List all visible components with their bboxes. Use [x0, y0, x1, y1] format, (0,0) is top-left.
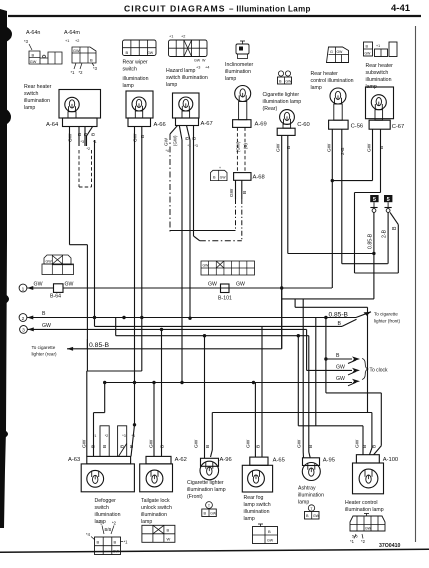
inclinometer label — [225, 62, 254, 82]
wire bus drop to A-63 pin4 — [131, 383, 136, 457]
rear heater subswitch label — [366, 63, 394, 90]
svg-text:unlock switch: unlock switch — [141, 505, 172, 511]
svg-text:GW: GW — [68, 133, 74, 142]
svg-text:B: B — [392, 226, 398, 230]
wire A-64 GW jog — [70, 245, 88, 371]
wire drops to A-62 — [154, 329, 162, 456]
svg-text:illumination: illumination — [298, 493, 324, 499]
lamp C-67 — [366, 87, 405, 130]
connector A-68 mate view — [211, 166, 228, 181]
svg-text:GW: GW — [164, 137, 169, 146]
svg-text:2-B: 2-B — [382, 229, 388, 238]
svg-text:GW: GW — [236, 282, 245, 288]
lamp A-62 — [140, 456, 187, 491]
svg-text:GW: GW — [220, 176, 227, 180]
svg-text:GW: GW — [355, 439, 361, 448]
svg-text:+1: +1 — [376, 44, 380, 48]
svg-text:illumination: illumination — [225, 69, 251, 75]
page header title — [124, 4, 311, 14]
svg-text:*4: *4 — [86, 532, 91, 537]
connector B-101 pin grid — [201, 261, 255, 275]
lamp C-56 wires — [326, 129, 346, 288]
svg-text:(Rear): (Rear) — [263, 106, 278, 112]
lamp C-56 — [329, 88, 364, 130]
svg-text:GW: GW — [267, 539, 274, 543]
svg-text:GW: GW — [203, 264, 210, 268]
svg-text:A-100: A-100 — [383, 457, 398, 463]
wire dashed link under A-64 — [79, 140, 95, 326]
svg-text:B: B — [306, 514, 309, 518]
cigarette lighter front label — [187, 480, 226, 500]
rear heater subswitch connector grid — [364, 42, 398, 57]
lamp A-65 wires — [254, 383, 256, 458]
lamp A-63 pin labels — [82, 426, 135, 457]
svg-text:A-69: A-69 — [255, 122, 267, 128]
connector B-101 on wire — [208, 282, 245, 302]
svg-text:lamp switch: lamp switch — [244, 502, 271, 508]
svg-text:2: 2 — [22, 316, 25, 322]
svg-text:GW: GW — [46, 260, 53, 264]
lamp A-69 dashed wires — [236, 127, 249, 172]
lamp A-65 — [242, 457, 285, 492]
wire C-60 B splice link — [288, 252, 376, 255]
wire C-56 2-B route — [342, 263, 388, 265]
svg-text:control illumination: control illumination — [311, 78, 354, 84]
A-96 connector view — [202, 502, 217, 517]
svg-text:lamp: lamp — [225, 76, 236, 82]
svg-text:+2: +2 — [181, 35, 185, 39]
svg-text:2-B: 2-B — [340, 148, 346, 155]
connector view A-64m — [64, 30, 98, 75]
svg-text:*3: *3 — [122, 434, 125, 438]
wire clock GW rail — [307, 364, 360, 375]
svg-text:B: B — [140, 135, 146, 138]
left binding edge — [0, 9, 12, 528]
wire 0.85-B from splice — [368, 212, 374, 299]
svg-text:Defogger: Defogger — [95, 498, 117, 504]
svg-text:Tailgate lock: Tailgate lock — [141, 498, 170, 504]
svg-text:Rear fog: Rear fog — [244, 495, 264, 501]
A-62 pin diagram — [142, 525, 175, 542]
svg-text:C-67: C-67 — [392, 124, 405, 130]
svg-text:illumination: illumination — [366, 77, 392, 83]
svg-text:B: B — [126, 50, 129, 55]
svg-text:B: B — [129, 445, 135, 448]
svg-text:Ashtray: Ashtray — [298, 486, 316, 492]
svg-text:A-68: A-68 — [253, 175, 265, 181]
svg-text:B: B — [77, 133, 83, 136]
svg-text:GW: GW — [73, 49, 80, 53]
ashtray label — [298, 486, 324, 506]
svg-text:*1: *1 — [71, 70, 76, 75]
lamp C-60 wires — [276, 135, 293, 348]
svg-text:illumination lamp: illumination lamp — [187, 487, 226, 493]
svg-text:lamp: lamp — [298, 500, 309, 506]
svg-text:A-95: A-95 — [323, 458, 335, 464]
svg-text:illumination lamp: illumination lamp — [263, 99, 302, 105]
svg-text:illumination: illumination — [141, 512, 167, 518]
svg-text:B: B — [213, 176, 216, 180]
svg-text:Heater control: Heater control — [345, 500, 378, 506]
svg-text:GW: GW — [147, 51, 154, 55]
wire GW bus horizontal — [103, 381, 352, 384]
lamp A-64 pin wires — [68, 127, 97, 245]
svg-text:Rear heater: Rear heater — [24, 84, 52, 90]
svg-text:switch illumination: switch illumination — [166, 75, 208, 81]
to clock label — [370, 368, 389, 374]
A-65 pin diagram — [253, 524, 278, 544]
svg-text:B: B — [308, 445, 314, 448]
svg-text:Rear heater: Rear heater — [311, 71, 339, 77]
svg-text:GW: GW — [208, 282, 217, 288]
svg-text:GW: GW — [133, 133, 139, 142]
right page edge — [415, 26, 417, 542]
svg-text:GW: GW — [313, 514, 320, 518]
page number 4-41 — [391, 3, 411, 14]
svg-text:B: B — [204, 512, 207, 516]
svg-text:W: W — [167, 537, 171, 542]
node 3 circled — [20, 326, 34, 334]
lamp A-65 pin labels — [246, 439, 262, 448]
svg-text:subswitch: subswitch — [366, 70, 389, 76]
lamp A-69 — [233, 86, 267, 128]
svg-text:0.85-B: 0.85-B — [368, 233, 374, 249]
cigarette lighter rear connector view — [278, 71, 293, 84]
svg-text:B: B — [242, 191, 248, 194]
svg-text:CIRCUIT DIAGRAMS: CIRCUIT DIAGRAMS — [124, 4, 226, 14]
svg-text:Rear wiper: Rear wiper — [123, 60, 148, 66]
svg-text:B: B — [90, 445, 96, 448]
A-100 pin diagram — [350, 514, 385, 545]
svg-text:lamp: lamp — [141, 519, 152, 525]
svg-text:lamp: lamp — [24, 105, 35, 111]
inclinometer connector view — [236, 41, 249, 59]
hazard lamp switch connector grid — [169, 35, 210, 70]
svg-text:37O0410: 37O0410 — [379, 543, 400, 549]
node 2 circled — [19, 314, 33, 322]
svg-text:*3: *3 — [99, 521, 104, 526]
svg-text:B: B — [205, 445, 211, 448]
svg-text:*3: *3 — [195, 144, 198, 148]
svg-text:B: B — [114, 540, 117, 545]
svg-text:1: 1 — [22, 286, 25, 292]
to cigarette lighter front label — [374, 312, 401, 324]
svg-text:+1: +1 — [65, 39, 69, 43]
svg-text:A-96: A-96 — [220, 457, 232, 463]
svg-text:GW: GW — [286, 80, 293, 84]
svg-text:B: B — [366, 45, 369, 49]
svg-text:GW: GW — [194, 439, 200, 448]
splice 5 left — [370, 195, 378, 212]
dash-dot link A-68 B — [200, 240, 242, 242]
svg-text:3: 3 — [22, 328, 25, 334]
svg-text:GW: GW — [229, 188, 235, 197]
svg-text:*1: *1 — [188, 144, 191, 148]
svg-text:*4: *4 — [166, 149, 169, 153]
svg-text:*3: *3 — [93, 66, 98, 71]
svg-text:To cigarette: To cigarette — [32, 345, 56, 350]
svg-text:GW: GW — [149, 439, 155, 448]
lamp A-95 pin labels — [297, 439, 315, 448]
svg-text:B: B — [160, 445, 166, 448]
A-63 pin diagram — [86, 521, 128, 555]
svg-text:*1: *1 — [124, 540, 129, 545]
svg-text:Hazard lamp: Hazard lamp — [166, 68, 196, 74]
wire clock GW branch arrow — [336, 359, 368, 386]
hazard lamp switch label — [166, 68, 208, 88]
svg-text:illumination: illumination — [123, 76, 149, 82]
svg-text:B-64: B-64 — [50, 294, 61, 300]
wire clock B rail — [324, 353, 360, 363]
lamp A-62 pin labels — [149, 439, 166, 448]
svg-text:Cigarette lighter: Cigarette lighter — [187, 480, 224, 486]
svg-text:GW: GW — [30, 60, 37, 64]
svg-text:To cigarette: To cigarette — [374, 312, 398, 317]
lamp C-67 wires — [367, 129, 385, 192]
svg-text:*4: *4 — [132, 434, 135, 438]
svg-text:4-41: 4-41 — [391, 3, 411, 14]
svg-text:B: B — [167, 528, 170, 533]
svg-text:B: B — [279, 80, 282, 84]
cigarette front 0.85-B lead — [95, 311, 372, 327]
svg-text:GW: GW — [194, 59, 201, 63]
illumination feed wire GW via B-64 — [27, 282, 332, 300]
rear wiper switch label — [123, 60, 149, 90]
svg-text:GW: GW — [336, 364, 345, 370]
svg-text:T: T — [208, 504, 211, 508]
connector view A-64n — [24, 30, 62, 64]
svg-text:*1: *1 — [93, 434, 96, 438]
svg-text:C-60: C-60 — [297, 122, 310, 128]
svg-text:B: B — [97, 540, 100, 545]
svg-text:(B): (B) — [243, 143, 248, 149]
svg-text:*2: *2 — [79, 70, 84, 75]
svg-text:B: B — [379, 146, 385, 149]
svg-text:B: B — [268, 529, 271, 534]
cigarette lighter rear label — [263, 92, 302, 112]
svg-text:+4: +4 — [205, 66, 209, 70]
wire jog x262 to A-65 B — [261, 326, 263, 457]
wire rail y335 to A-95 A-96 — [116, 318, 363, 458]
svg-text:illumination lamp: illumination lamp — [345, 507, 384, 513]
svg-text:lighter (front): lighter (front) — [374, 319, 401, 324]
svg-text:Rear heater: Rear heater — [366, 63, 394, 69]
rear fog label — [244, 495, 271, 522]
svg-text:*1: *1 — [350, 539, 355, 544]
wire A-67 B to A-100 route — [282, 299, 374, 413]
svg-text:A-66: A-66 — [154, 122, 166, 128]
svg-text:*2: *2 — [105, 434, 108, 438]
svg-text:– Illumination Lamp: – Illumination Lamp — [229, 5, 311, 14]
svg-text:B: B — [362, 445, 368, 448]
svg-text:Inclinometer: Inclinometer — [225, 62, 254, 68]
svg-text:GW: GW — [365, 52, 372, 56]
svg-text:A-64n: A-64n — [26, 30, 40, 36]
rear heater control label — [311, 71, 354, 91]
header rule — [8, 15, 421, 17]
svg-text:To clock: To clock — [370, 368, 389, 374]
svg-text:GW: GW — [82, 439, 88, 448]
svg-text:B: B — [42, 311, 46, 317]
svg-text:*3: *3 — [24, 39, 29, 44]
svg-text:0.85-B: 0.85-B — [89, 342, 109, 349]
svg-text:(GW): (GW) — [236, 141, 241, 152]
svg-text:A-64: A-64 — [46, 122, 59, 128]
lamp A-95 — [302, 458, 335, 481]
svg-text:switch: switch — [123, 67, 138, 73]
svg-text:switch: switch — [95, 505, 110, 511]
lamp A-100 — [353, 455, 399, 494]
wire GW rail node3 — [28, 323, 307, 370]
svg-text:*3: *3 — [81, 140, 85, 144]
svg-text:lamp: lamp — [244, 516, 255, 522]
svg-text:B: B — [336, 353, 340, 359]
svg-text:GW: GW — [297, 439, 303, 448]
svg-text:0.85-B: 0.85-B — [329, 311, 349, 318]
wire B rail to A-63 via jog — [87, 371, 142, 456]
svg-text:(GW): (GW) — [173, 135, 178, 146]
svg-text:(Front): (Front) — [187, 494, 203, 500]
svg-text:GW: GW — [246, 439, 252, 448]
svg-text:GW: GW — [210, 512, 217, 516]
rear wiper switch connector grid — [123, 40, 157, 56]
wire 2-B from splice — [382, 212, 389, 263]
svg-text:C-56: C-56 — [351, 124, 364, 130]
svg-text:illumination: illumination — [244, 509, 270, 515]
svg-text:GW: GW — [276, 143, 282, 152]
lamp A-66 wires — [133, 127, 146, 383]
defogger switch label — [95, 498, 121, 525]
svg-text:B-101: B-101 — [218, 296, 232, 302]
svg-text:A-63: A-63 — [68, 457, 80, 463]
wire rail y347 short — [0, 0, 1, 1]
connector B-64 pin grid — [42, 255, 74, 275]
svg-text:A-62: A-62 — [175, 457, 187, 463]
node 1 circled — [19, 284, 33, 292]
svg-text:A-65: A-65 — [273, 458, 285, 464]
rear heater switch illumination lamp label — [24, 84, 52, 111]
connector A-68 — [234, 173, 265, 181]
svg-text:GW: GW — [65, 282, 74, 288]
svg-text:+3: +3 — [196, 66, 200, 70]
svg-text:B/B: B/B — [105, 527, 112, 532]
svg-text:*2: *2 — [87, 147, 91, 151]
lamp A-66 — [126, 91, 166, 128]
wire B from splice — [390, 212, 398, 273]
svg-text:lamp: lamp — [166, 82, 177, 88]
A-95 connector view — [305, 505, 320, 519]
svg-text:B: B — [83, 133, 89, 136]
svg-text:+: + — [219, 166, 221, 170]
dash-dot link A-68 GW — [170, 230, 236, 232]
svg-text:B: B — [192, 137, 198, 140]
svg-text:lamp: lamp — [311, 85, 322, 91]
svg-text:GW: GW — [337, 50, 344, 54]
svg-text:lighter (rear): lighter (rear) — [32, 352, 57, 357]
to cigarette lighter rear lead — [32, 288, 282, 357]
svg-text:*2: *2 — [112, 521, 117, 526]
svg-text:A-67: A-67 — [201, 121, 213, 127]
svg-text:illumination: illumination — [95, 512, 121, 518]
heater control label — [345, 500, 384, 513]
wire A-96 B feed — [211, 413, 372, 458]
lamp A-96 pin labels — [194, 439, 212, 448]
svg-text:*2: *2 — [361, 539, 366, 544]
lamp A-67 wires — [164, 126, 200, 384]
lamp A-96 — [200, 457, 232, 480]
lamp A-67 — [173, 93, 213, 127]
rear heater control connector grid — [327, 47, 349, 63]
lamp C-60 — [277, 110, 310, 136]
svg-text:GW: GW — [42, 323, 51, 329]
diagram code 37O0410 — [379, 543, 400, 549]
svg-text:GW: GW — [367, 143, 373, 152]
svg-text:B: B — [91, 133, 97, 136]
A-68 wires — [229, 180, 248, 241]
svg-text:+1: +1 — [169, 35, 173, 39]
svg-text:GW: GW — [326, 143, 332, 152]
wire v315 — [315, 318, 317, 426]
svg-text:B: B — [102, 445, 108, 448]
svg-text:B: B — [372, 445, 378, 448]
wire bus drop to A-63 pin1 — [94, 383, 105, 457]
svg-text:B: B — [286, 146, 292, 149]
svg-text:lamp: lamp — [123, 83, 134, 89]
svg-text:GW: GW — [365, 527, 372, 531]
svg-text:B: B — [256, 445, 262, 448]
wire 0.85-B down branch — [326, 318, 381, 455]
svg-text:+2: +2 — [75, 39, 79, 43]
svg-text:B: B — [32, 53, 35, 58]
svg-text:W: W — [202, 59, 206, 63]
splice 5 right — [384, 195, 392, 212]
svg-text:A-64m: A-64m — [64, 30, 80, 36]
svg-text:illumination: illumination — [24, 98, 50, 104]
svg-text:switch: switch — [24, 91, 39, 97]
wire A-95 GW drop — [302, 299, 304, 458]
lamp A-64 — [46, 90, 101, 129]
wire C-56 GW to C-67 GW link — [331, 179, 373, 182]
svg-text:Cigarette lighter: Cigarette lighter — [263, 92, 300, 98]
lamp A-100 pin labels — [355, 439, 378, 448]
tailgate lock label — [141, 498, 172, 525]
wire A-100 pin3 feed — [0, 0, 1, 1]
svg-text:B: B — [90, 58, 93, 63]
svg-text:B: B — [185, 137, 191, 140]
svg-text:GW: GW — [336, 376, 345, 382]
bottom rule — [0, 549, 429, 554]
svg-text:GW: GW — [34, 282, 43, 288]
svg-text:G: G — [330, 50, 333, 54]
lamp A-63 — [68, 456, 134, 491]
svg-text:GW: GW — [113, 550, 120, 554]
wire B rail node2 to cigarette front — [27, 311, 356, 320]
wire C-67 B route — [355, 193, 399, 274]
